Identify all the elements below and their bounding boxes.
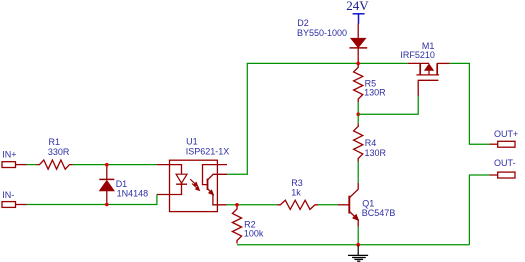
U1 pin 2 (cathode, left bottom) [157, 184, 182, 194]
port OUT+ [489, 143, 497, 145]
wire R5 to node [357, 102, 359, 123]
node: R2/R3/U1 emitter junction [235, 203, 239, 207]
wire IN+ to R1 [27, 164, 37, 166]
svg-text:IN-: IN- [2, 190, 14, 200]
resistor R1 [37, 160, 73, 169]
resistor R2 [232, 206, 241, 244]
svg-text:U1: U1 [186, 137, 198, 147]
U1 internal LED [176, 174, 187, 183]
svg-text:R3: R3 [291, 178, 303, 188]
node: D1 bottom junction [105, 203, 109, 207]
svg-text:IRF5210: IRF5210 [400, 50, 435, 60]
svg-text:OUT+: OUT+ [494, 129, 518, 139]
wire gate [358, 96, 418, 114]
diode D1 1N4148 [106, 165, 108, 180]
svg-text:330R: 330R [48, 147, 70, 157]
svg-text:100k: 100k [244, 229, 264, 239]
wire U1 collector up to top rail [227, 63, 408, 174]
node: R5/R4/gate junction [356, 112, 360, 116]
diode D2 BY550-1000 [357, 24, 359, 39]
wire OUT- to bottom rail [469, 175, 489, 245]
wire R1 to U1 pin (through node at D1) [73, 164, 157, 166]
wire R3 to Q1 base [318, 204, 338, 206]
svg-text:130R: 130R [365, 148, 387, 158]
svg-text:1k: 1k [291, 188, 301, 198]
node: ground junction [356, 243, 360, 247]
svg-text:R4: R4 [365, 138, 377, 148]
svg-text:130R: 130R [364, 88, 386, 98]
port IN+ [2, 162, 16, 168]
resistor R4 [354, 123, 363, 161]
svg-text:1N4148: 1N4148 [117, 188, 149, 198]
U1 pin 1 (anode, left top) [157, 165, 182, 174]
U1 phototransistor base bar [207, 179, 209, 190]
svg-text:BY550-1000: BY550-1000 [297, 28, 347, 38]
port IN- [2, 202, 16, 208]
U1 light arrows [190, 179, 196, 185]
wire U1 emitter node to R3 [227, 204, 278, 206]
svg-text:R1: R1 [49, 137, 61, 147]
svg-text:D2: D2 [297, 18, 309, 28]
wire bottom rail [237, 244, 469, 246]
wire Q1 emitter to ground rail [357, 227, 359, 245]
svg-text:BC547B: BC547B [362, 208, 396, 218]
resistor R5 [354, 64, 363, 102]
resistor R3 [277, 200, 318, 209]
transistor Q1 BC547B [338, 204, 349, 206]
node: D1 top junction [105, 163, 109, 167]
U1 phototransistor emitter + pin 4 [208, 189, 227, 205]
U1 phototransistor base lead + pin 6 (dead end) [203, 165, 228, 185]
wire R4 to Q1 collector [357, 162, 359, 184]
svg-text:ISP621-1X: ISP621-1X [186, 146, 230, 156]
optocoupler U1 ISP621-1X box [170, 160, 218, 211]
wire IN- to U1 cathode pin [27, 195, 157, 205]
wire M1 drain to OUT+ [450, 63, 490, 144]
ground [357, 246, 359, 256]
svg-text:OUT-: OUT- [494, 158, 516, 168]
U1 phototransistor collector + pin 5 [208, 174, 228, 180]
node: top rail junction at D2 cathode [356, 62, 360, 66]
svg-text:IN+: IN+ [2, 150, 16, 160]
svg-text:Q1: Q1 [362, 198, 374, 208]
svg-text:24V: 24V [346, 0, 369, 13]
